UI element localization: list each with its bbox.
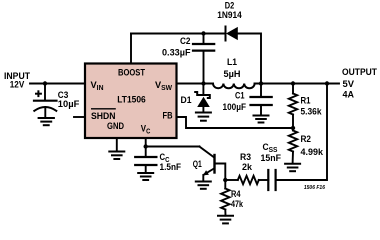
wire output rail <box>255 83 339 85</box>
svg-text:12V: 12V <box>10 80 25 90</box>
svg-text:10µF: 10µF <box>58 99 80 109</box>
svg-text:R1: R1 <box>301 95 311 105</box>
capacitor CC <box>135 156 156 158</box>
svg-text:5.36k: 5.36k <box>301 106 323 116</box>
wire VSW rail to L1 <box>177 83 214 85</box>
svg-text:1.5nF: 1.5nF <box>160 162 182 172</box>
ground below D1 <box>196 113 211 121</box>
svg-text:D1: D1 <box>181 95 192 105</box>
node Q1 base/R3/R4 junction <box>223 178 227 182</box>
svg-text:100µF: 100µF <box>223 102 247 112</box>
svg-text:5V: 5V <box>343 79 355 89</box>
resistor R4 <box>224 180 226 189</box>
svg-text:1N914: 1N914 <box>217 10 242 20</box>
svg-text:R3: R3 <box>240 152 251 162</box>
ground below CC <box>138 173 153 180</box>
svg-text:BOOST: BOOST <box>118 68 145 78</box>
wire Q1 base lead <box>215 164 226 181</box>
ground below C1 <box>254 116 269 123</box>
ground below GND pin <box>109 152 124 160</box>
op IC body LT1506 U1 <box>85 64 177 139</box>
svg-text:OUTPUT: OUTPUT <box>342 67 377 77</box>
svg-text:1506 F16: 1506 F16 <box>304 185 325 191</box>
node output soft-start junction <box>325 81 329 85</box>
svg-text:Q1: Q1 <box>193 159 202 169</box>
node C1/D2 junction <box>259 81 263 85</box>
transistor Q1 <box>199 147 214 158</box>
wire top rail right + drop to output <box>238 34 262 84</box>
capacitor C2 <box>203 34 205 44</box>
wire soft-start arm <box>276 84 327 181</box>
wire BOOST stub <box>130 34 132 64</box>
resistor R3 <box>225 179 238 181</box>
diode D1 schottky <box>202 84 204 96</box>
svg-text:LT1506: LT1506 <box>117 95 146 106</box>
capacitor C3 <box>34 100 57 102</box>
wire C3 stub <box>44 84 46 101</box>
node FB/R1/R2 junction <box>291 126 295 130</box>
resistor R2 <box>292 128 294 131</box>
svg-text:R4: R4 <box>231 189 241 199</box>
svg-text:C2: C2 <box>180 36 191 46</box>
diode D2 1N914 <box>225 27 227 41</box>
wire SHDN stub <box>74 116 85 118</box>
wire VC pin stub <box>145 138 147 157</box>
node VSW/C2/D1 junction <box>201 81 205 85</box>
wire FB rail <box>177 117 294 128</box>
svg-text:D2: D2 <box>225 1 235 11</box>
resistor R1 <box>292 84 294 94</box>
svg-text:5µH: 5µH <box>224 69 241 79</box>
capacitor CSS <box>267 170 269 190</box>
wire VC rail to Q1 <box>146 146 200 148</box>
node R1 top junction <box>291 81 295 85</box>
svg-text:R2: R2 <box>301 134 312 144</box>
capacitor C1 <box>260 84 262 97</box>
svg-text:0.33µF: 0.33µF <box>162 47 191 57</box>
svg-text:L1: L1 <box>227 57 237 67</box>
inductor L1 <box>213 84 255 89</box>
svg-text:GND: GND <box>107 121 124 132</box>
wire GND pin stub <box>116 138 118 151</box>
svg-text:4A: 4A <box>343 89 355 99</box>
node input/C3 junction <box>43 81 47 85</box>
wire top rail <box>131 33 226 35</box>
ground below R2 <box>285 164 300 172</box>
svg-text:4.99k: 4.99k <box>301 147 324 157</box>
ground below C3 <box>39 118 54 125</box>
svg-text:47k: 47k <box>231 199 244 209</box>
text + polarity C3 <box>35 90 42 97</box>
wire input rail <box>30 83 85 85</box>
node VC junction <box>144 144 148 148</box>
ground below Q1 emitter <box>196 182 211 189</box>
svg-text:C1: C1 <box>235 91 245 101</box>
svg-text:FB: FB <box>163 111 173 122</box>
svg-text:15nF: 15nF <box>261 153 282 163</box>
node C2 top junction <box>201 31 205 35</box>
svg-text:2k: 2k <box>242 162 253 172</box>
ground below R4 <box>218 216 233 224</box>
